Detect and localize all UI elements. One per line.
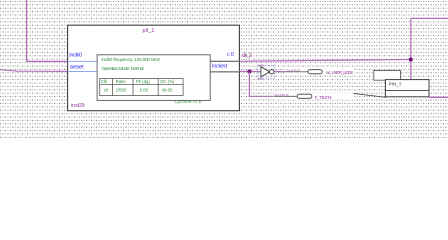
junction node on locked wire — [247, 69, 251, 73]
svg-text:c0: c0 — [104, 87, 109, 92]
svg-text:Ratio: Ratio — [116, 79, 126, 84]
wire: junction up and right to top edge — [411, 18, 448, 59]
port stub locked (gray, right) — [210, 71, 239, 73]
block pll_1 body — [68, 25, 240, 111]
svg-text:c0: c0 — [227, 52, 234, 58]
wire: locked to inverter — [239, 70, 261, 72]
OUTPUT oval 2 — [297, 94, 312, 98]
svg-text:1/500: 1/500 — [116, 87, 127, 92]
clock table — [100, 79, 183, 96]
wire under OUTPUT text 1 — [286, 71, 308, 73]
selection box around inverter (dashed) — [258, 65, 275, 78]
svg-text:wr_USER_LEDS: wr_USER_LEDS — [326, 70, 353, 75]
svg-text:Ph (dg): Ph (dg) — [136, 79, 150, 84]
wire: from pin box right to edge — [429, 96, 448, 98]
port stub inclk0 (light blue) — [68, 60, 98, 62]
OUTPUT pin symbol 2 background — [274, 93, 355, 100]
small assignment flag box — [374, 71, 401, 81]
svg-text:49.00: 49.00 — [162, 87, 173, 92]
svg-text:Operation Mode: Normal: Operation Mode: Normal — [102, 66, 144, 71]
svg-text:inclk0 frequency: 100.000 MHz: inclk0 frequency: 100.000 MHz — [102, 57, 161, 62]
svg-text:areset: areset — [70, 64, 84, 70]
svg-text:Cyclone IV E: Cyclone IV E — [174, 99, 203, 104]
svg-text:locked: locked — [212, 64, 227, 70]
inverter U: triangle — [261, 67, 270, 77]
wire: branch down to F_TEST4 — [249, 71, 297, 96]
svg-text:clk_2: clk_2 — [242, 53, 252, 59]
wire: areset from left edge — [0, 70, 68, 72]
port stub areset (light blue) — [68, 70, 98, 72]
port stub c0 (gray, right) — [210, 60, 239, 62]
svg-text:Clk: Clk — [101, 79, 108, 84]
wire: c0 to pin junction (slight slope) — [239, 60, 410, 62]
svg-text:inclk0: inclk0 — [69, 53, 82, 59]
svg-text:0.00: 0.00 — [140, 87, 149, 92]
svg-text:F_TEST4: F_TEST4 — [315, 95, 332, 100]
wire: inclk0 vertical from top at x=26.6 — [27, 0, 68, 61]
PIN box — [385, 80, 429, 97]
wire under OUTPUT text 2 — [274, 95, 297, 97]
PIN box divider — [385, 90, 429, 92]
OUTPUT pin symbol 1 background — [286, 68, 355, 75]
wire: inverter out to OUTPUT symbol — [274, 71, 308, 73]
callout line to PIN box — [353, 93, 386, 97]
svg-text:DC (%): DC (%) — [160, 79, 174, 84]
OUTPUT oval 1 — [308, 70, 322, 74]
svg-text:inst29: inst29 — [71, 103, 85, 109]
wire: junction down to pin box — [410, 60, 412, 80]
junction node near pin box — [409, 58, 413, 62]
svg-text:pll_1: pll_1 — [143, 28, 155, 34]
inverter bubble — [270, 70, 274, 74]
inner parameter box — [97, 55, 210, 101]
svg-text:PIN_?: PIN_? — [389, 82, 402, 87]
